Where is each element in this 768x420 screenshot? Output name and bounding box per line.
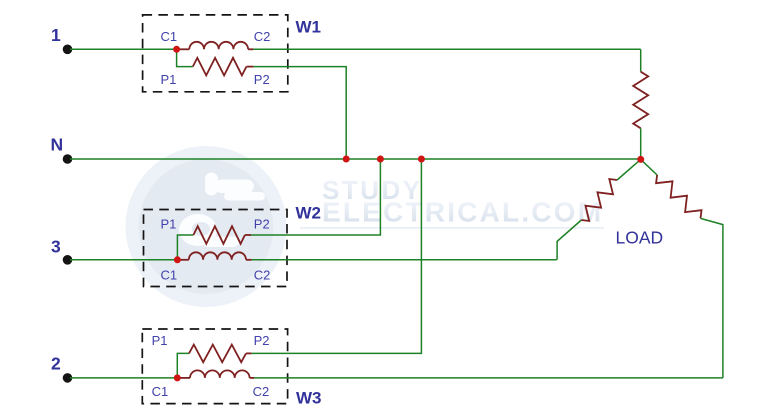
W2 current coil (inductor C1-C2)	[189, 252, 246, 260]
junction dot W2 C1	[174, 256, 181, 263]
terminal dot phase 1	[63, 45, 73, 55]
svg-text:P1: P1	[152, 333, 168, 348]
wire: left leg resistor to phase 3 rail	[557, 220, 581, 260]
W3 current coil lead left	[177, 377, 190, 379]
watermark logo circle	[139, 159, 274, 294]
wire: W2 C2 to load left leg	[252, 259, 557, 261]
wattmeter W1 box	[143, 15, 288, 92]
svg-text:P2: P2	[254, 333, 270, 348]
svg-text:C1: C1	[152, 384, 169, 399]
terminal dot phase 3	[63, 255, 73, 265]
load resistor top (phase 1 leg)	[633, 72, 648, 129]
svg-text:3: 3	[51, 236, 61, 256]
wire: W1 C2 to load top	[253, 48, 640, 50]
watermark outer ring	[132, 153, 280, 301]
svg-text:P1: P1	[161, 72, 177, 87]
W2 current coil lead left	[177, 259, 188, 261]
wire: W2 C1 up to potential coil P1	[177, 235, 193, 260]
terminal dot phase 2	[63, 373, 73, 383]
svg-text:W3: W3	[296, 389, 322, 408]
watermark underline	[300, 227, 604, 229]
wattmeter W2 box	[144, 210, 288, 287]
svg-text:W2: W2	[296, 204, 322, 223]
svg-text:ELECTRICAL.COM: ELECTRICAL.COM	[322, 197, 603, 228]
wire: phase 2 terminal to W3 C1	[70, 377, 179, 379]
svg-text:C2: C2	[254, 29, 271, 44]
W1 potential coil (resistor P1-P2)	[193, 58, 247, 76]
load resistor right (phase 2 leg)	[656, 175, 701, 218]
wire: phase 1 terminal to W1 C1	[70, 48, 178, 50]
svg-text:1: 1	[51, 25, 61, 45]
W3 potential coil lead right	[246, 352, 252, 354]
svg-text:C2: C2	[254, 267, 271, 282]
wire: right leg resistor down to phase 2 rail	[701, 218, 723, 378]
W1 current coil lead right	[248, 48, 253, 50]
junction dot W1 P2 on neutral	[343, 156, 350, 163]
wire: phase 3 terminal to W2 C1	[70, 259, 179, 261]
junction dot star point	[637, 156, 644, 163]
wire: star point to left leg resistor	[617, 159, 641, 180]
terminal dot neutral N	[63, 154, 73, 164]
svg-text:LOAD: LOAD	[616, 228, 664, 248]
wire: star point to right leg resistor	[641, 159, 657, 175]
watermark logo glyph	[179, 173, 265, 248]
wire: neutral rail N	[70, 158, 641, 160]
wire: load top from W1 C2 down	[640, 49, 642, 71]
svg-text:C2: C2	[253, 384, 270, 399]
W3 potential coil (resistor P1-P2)	[189, 345, 246, 363]
svg-text:P1: P1	[161, 216, 177, 231]
wire: W3 C1 up to potential coil P1	[177, 353, 189, 378]
wire: W3 C2 to load right leg bottom	[254, 377, 723, 379]
W1 current coil (inductor C1-C2)	[189, 42, 248, 49]
load resistor left (phase 3 leg)	[581, 179, 617, 221]
svg-text:C1: C1	[161, 29, 178, 44]
svg-text:C1: C1	[161, 267, 178, 282]
W2 potential coil (resistor P1-P2)	[193, 226, 245, 244]
svg-text:2: 2	[51, 354, 61, 374]
wire: W2 P2 right then up to neutral	[251, 159, 380, 235]
junction dot W3 P2 on neutral	[418, 156, 425, 163]
svg-text:N: N	[51, 135, 64, 155]
W3 current coil (inductor C1-C2)	[190, 370, 250, 377]
W2 potential coil lead right	[245, 234, 251, 236]
W1 potential coil lead right	[246, 66, 253, 68]
junction dot W2 P2 on neutral	[377, 156, 384, 163]
svg-text:W1: W1	[296, 18, 322, 37]
junction dot W1 C1	[173, 46, 180, 53]
junction dot W3 C1	[174, 374, 181, 381]
wire: load top resistor to star point	[640, 128, 642, 159]
wire: W1 P2 right then down to neutral	[253, 67, 346, 159]
svg-text:P2: P2	[254, 216, 270, 231]
W3 current coil lead right	[250, 377, 254, 379]
svg-text:P2: P2	[254, 72, 270, 87]
wire: W3 P2 right then up to neutral	[252, 159, 422, 353]
wattmeter W3 box	[142, 329, 287, 404]
W2 current coil lead right	[246, 259, 252, 261]
W1 current coil lead left	[177, 48, 190, 50]
wire: W1 C1 down to potential coil P1	[177, 49, 193, 66]
